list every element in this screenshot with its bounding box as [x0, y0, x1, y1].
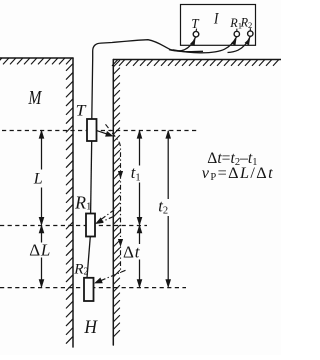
svg-text:I: I	[213, 11, 219, 28]
wire R1 to R2	[87, 237, 90, 278]
dimension line dL	[41, 226, 43, 287]
arrows of t1	[137, 130, 143, 139]
arrows of dL	[39, 224, 45, 233]
svg-text:L: L	[33, 170, 43, 187]
arrows of dt	[137, 224, 143, 233]
down arrow on head wave path (upper)	[118, 171, 123, 179]
transmitter T transducer	[87, 119, 97, 141]
wire from T terminal	[169, 37, 196, 51]
wire cable into borehole	[92, 40, 203, 119]
receiver R1 transducer	[86, 214, 95, 237]
svg-text:M: M	[28, 88, 43, 109]
dimension line dt	[139, 226, 141, 287]
wire from R1 terminal	[173, 37, 237, 53]
head wave path along wall (dash-dot)	[106, 124, 121, 273]
dimension line L	[41, 131, 43, 224]
instrument box I	[181, 5, 256, 46]
stem above R2 terminal	[249, 28, 251, 31]
svg-text:Δt: Δt	[123, 243, 141, 262]
receiver R2 transducer	[84, 278, 94, 301]
dimension line t2	[167, 131, 169, 287]
svg-text:H: H	[83, 317, 98, 338]
borehole right wall	[112, 60, 114, 346]
ray into R1 (lower)	[97, 217, 113, 224]
acoustic ray T to wall	[97, 131, 111, 136]
ground surface right of borehole	[113, 59, 281, 61]
terminal circle R1	[234, 31, 239, 36]
arrowhead on T wire	[190, 39, 195, 46]
down arrow on head wave path (lower)	[118, 239, 123, 247]
arrowhead at R2	[94, 278, 103, 284]
terminal circle R2	[248, 31, 253, 36]
ray into R1 (upper)	[97, 210, 114, 223]
arrows of L	[39, 130, 45, 139]
depth line at receiver R2	[0, 287, 186, 289]
borehole left wall	[72, 58, 74, 347]
wire T to R1	[91, 141, 92, 214]
arrows of t2	[165, 130, 171, 139]
dimension line t1	[139, 131, 141, 224]
depth line at transmitter T	[2, 130, 198, 132]
wire from R2 terminal	[228, 37, 251, 53]
stem above R1 terminal	[236, 29, 238, 32]
arrowhead at R1	[95, 217, 104, 224]
arrowhead on R2 wire	[245, 38, 251, 45]
ray into R2	[98, 270, 126, 282]
terminal circle T	[193, 31, 199, 37]
depth line at receiver R1	[0, 225, 147, 227]
ground surface left of borehole	[0, 57, 73, 59]
svg-text:ΔL: ΔL	[29, 240, 51, 259]
stem above T terminal	[195, 29, 198, 32]
arrowhead on R1 wire	[231, 38, 237, 45]
